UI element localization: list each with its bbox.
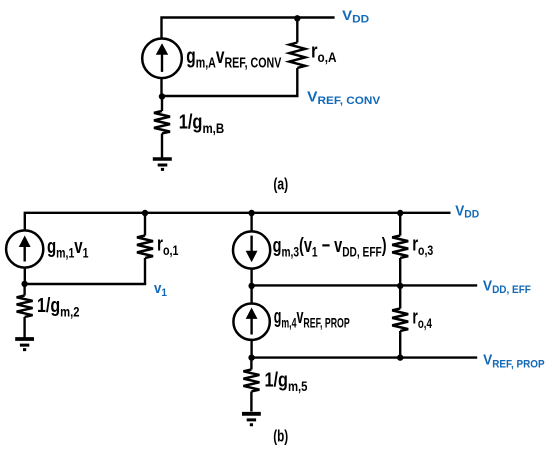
svg-text:(b): (b) bbox=[273, 428, 288, 446]
svg-text:(a): (a) bbox=[273, 175, 288, 193]
